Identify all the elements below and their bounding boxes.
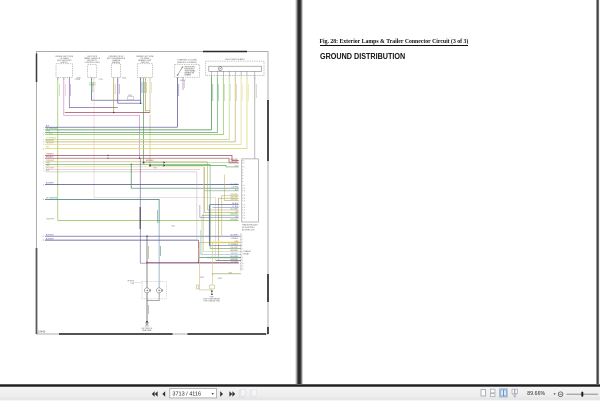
wire TAN/WHT to lower connector pin 7: [201, 254, 241, 256]
steering column multifunction switch box: [175, 65, 200, 78]
svg-text:LT GRN/BLK: LT GRN/BLK: [228, 244, 239, 246]
svg-text:BRN/BLK: BRN/BLK: [46, 156, 54, 158]
lamp bulb 2: [157, 288, 162, 293]
lower stub labels: [228, 235, 239, 264]
wire BLK from ignition switch to bus: [176, 77, 178, 127]
svg-text:ENTRY): ENTRY): [60, 62, 68, 64]
svg-text:3: 3: [242, 242, 243, 244]
svg-text:RELAY: RELAY: [243, 252, 250, 255]
svg-text:8: 8: [43, 168, 44, 170]
wire GRN/WHT to lower connector pin 9: [216, 259, 241, 261]
light switch inner block: [209, 66, 262, 71]
svg-text:LT GRN: LT GRN: [46, 133, 53, 135]
toolbar body: [0, 387, 600, 401]
connector box C249 under left side of dash: [56, 64, 73, 78]
connector ref labels: [75, 77, 186, 87]
green vertical to module pin5: [131, 164, 239, 188]
pin ticks inside left edge: [242, 161, 244, 218]
svg-text:19: 19: [244, 210, 246, 212]
steering column label: [177, 60, 197, 64]
wire VIO to module pin 22: [200, 205, 239, 218]
right page heading: Fig. 28 title: [320, 39, 590, 45]
verticals feeding rows: [208, 205, 210, 246]
svg-text:BRN/WHT: BRN/WHT: [230, 250, 238, 252]
wire BLK/WHT bus lower second: [45, 239, 198, 241]
svg-text:6: 6: [43, 163, 44, 165]
svg-text:VIO/WHT: VIO/WHT: [231, 262, 238, 264]
wire RED/WHT from C585 to lower connector: [94, 78, 216, 261]
lamp bulb 1: [144, 288, 149, 293]
svg-text:5: 5: [43, 161, 44, 163]
tan wires: [200, 242, 212, 290]
zoom percent: [527, 391, 545, 397]
B3 label: [107, 56, 126, 64]
svg-text:BLK/WHT: BLK/WHT: [231, 184, 239, 186]
svg-text:10: 10: [242, 263, 244, 265]
right page edge: [596, 0, 598, 384]
svg-text:C115: C115: [128, 95, 132, 97]
svg-text:2: 2: [242, 239, 243, 241]
wire BLK/WHT bus to trailer module pin 9: [45, 184, 239, 186]
wire GRN light switch pin 2 to left bus: [45, 76, 217, 132]
wire VIO ignition switch stub: [182, 77, 184, 90]
svg-text:255A: 255A: [122, 77, 127, 80]
svg-text:W/ TRLR: W/ TRLR: [127, 281, 134, 283]
wire BLK bus to ignition switch: [45, 126, 177, 128]
junction dots mid: [113, 102, 142, 113]
wire ORN/BLK vertical to splice: [197, 240, 199, 262]
svg-text:IGNITION SW: IGNITION SW: [185, 67, 196, 69]
ground symbol: [146, 321, 148, 323]
svg-text:ORN/WHT: ORN/WHT: [230, 247, 238, 249]
wire BLK/WHT from C585 to junction: [91, 78, 93, 92]
svg-text:8: 8: [242, 257, 243, 259]
wire ORN/WHT bus to bundle: [45, 161, 207, 163]
svg-text:8: 8: [43, 144, 44, 146]
svg-text:3713 / 4116: 3713 / 4116: [172, 392, 201, 398]
svg-text:7: 7: [43, 166, 44, 168]
svg-text:C417: C417: [200, 277, 204, 279]
svg-text:9: 9: [242, 260, 243, 262]
faded clipboard icons: [238, 389, 260, 400]
diagram frame border: [37, 52, 269, 335]
green feed from connector column: [211, 274, 213, 275]
wire BRN/WHT light switch pin 6 to left bus: [45, 76, 235, 141]
pin boxes: [197, 285, 199, 289]
svg-text:BLK/WHT: BLK/WHT: [46, 238, 55, 240]
wire ORN/WHT to module pin 13: [222, 196, 239, 237]
svg-text:TAN/WHT: TAN/WHT: [231, 252, 239, 255]
ground wire: [146, 293, 148, 322]
svg-text:MULTIFUNCT: MULTIFUNCT: [185, 69, 195, 71]
toolbar nav controls: [146, 388, 246, 400]
wire BLK/WHT to module pin 19: [207, 162, 238, 210]
svg-text:16: 16: [43, 184, 45, 186]
wire VIO from C249 to 255A: [69, 78, 118, 108]
svg-text:10: 10: [43, 148, 45, 150]
wire PNK from C249 to splice vertical: [64, 78, 140, 159]
svg-text:LIGHT SWITCH ASSY: LIGHT SWITCH ASSY: [225, 58, 246, 61]
svg-text:BLK/WHT: BLK/WHT: [46, 234, 55, 236]
svg-text:1: 1: [242, 236, 243, 238]
svg-text:C434: C434: [171, 226, 175, 228]
left page: [0, 0, 296, 384]
wire BRN/BLK splice run: [65, 112, 150, 114]
connector pin rows (tiny): [57, 78, 256, 81]
svg-text:4: 4: [43, 134, 44, 136]
svg-text:255A: 255A: [76, 77, 81, 80]
inline connector box on navy run: [128, 97, 134, 100]
wire BLK light switch pin 10 to trailer module: [254, 76, 256, 158]
B1 label: [55, 56, 73, 64]
gray link to module pin6: [204, 190, 239, 192]
svg-text:ORN/WHT: ORN/WHT: [230, 161, 238, 163]
wire DK GRN/WHT light switch pin 1 to left bus: [45, 76, 211, 129]
svg-text:BLU/WHT: BLU/WHT: [231, 256, 239, 258]
svg-text:2: 2: [43, 130, 44, 132]
B2 label: [84, 56, 101, 64]
pin numbers: [244, 160, 246, 219]
svg-text:YEL: YEL: [46, 147, 49, 149]
wire ORN from 255A to splice S1: [113, 78, 115, 113]
wire BLK/WHT bus to lower connector pin 1: [45, 235, 241, 237]
svg-text:GRN/WHT: GRN/WHT: [230, 259, 238, 261]
svg-text:15: 15: [244, 200, 246, 202]
svg-text:ORN/BLK: ORN/BLK: [231, 238, 239, 240]
svg-text:4: 4: [242, 245, 243, 247]
connector box C585 security control unit: [88, 65, 97, 78]
svg-text:14: 14: [244, 198, 246, 200]
svg-text:BLK/WHT: BLK/WHT: [46, 183, 55, 185]
svg-text:TAN/WHT: TAN/WHT: [46, 142, 55, 145]
svg-text:11: 11: [242, 266, 244, 268]
module stub wires group: [197, 162, 241, 261]
module stub labels (colored): [230, 159, 239, 221]
svg-text:GRN/WHT: GRN/WHT: [230, 219, 238, 221]
wire DK BLU bundle vertical: [209, 205, 211, 246]
wire LT GRN light switch pin 3 to left bus: [45, 76, 223, 134]
wire ORN/WHT to lower connector pin 5: [210, 248, 241, 250]
bus left labels: [46, 125, 58, 240]
wire BRN/WHT to lower connector pin 6: [204, 167, 242, 252]
wire GRN brake switch to inline connector: [143, 78, 145, 163]
svg-text:BRN/WHT: BRN/WHT: [146, 160, 154, 162]
splice mark on maroon pair: [107, 155, 140, 159]
lower connector stub wires group: [199, 164, 241, 273]
light switch pin label bars: [213, 84, 256, 101]
module label below: [242, 224, 259, 232]
right page: [303, 0, 597, 384]
wire RED/WHT bus to bundle: [45, 168, 200, 170]
wire BLK bus to bundle: [45, 171, 197, 173]
wire TAN/WHT light switch pin 7 to left bus: [45, 76, 241, 144]
bus left pin numbers: [43, 127, 45, 242]
svg-text:16465: 16465: [38, 330, 46, 334]
svg-text:P186: P186: [210, 296, 214, 298]
toolbar dark top band: [0, 384, 600, 387]
wire TAN/WHT bundle vertical: [224, 175, 226, 201]
svg-text:DK GRN/WHT: DK GRN/WHT: [46, 198, 58, 200]
wire TAN/WHT to module pin 15: [225, 200, 239, 202]
svg-text:SWITCH: SWITCH: [141, 62, 149, 64]
wire BLK/WHT brake switch drop: [140, 78, 142, 104]
svg-text:F: F: [219, 68, 222, 71]
svg-text:13: 13: [244, 195, 246, 197]
label bars on lamp wires: [147, 246, 149, 259]
svg-text:22: 22: [43, 236, 45, 238]
svg-text:G401: G401: [145, 326, 149, 328]
wire BRN/WHT to module pin 14: [219, 198, 239, 260]
wire TAN bus to bundle: [45, 166, 204, 168]
svg-text:(SHROUD LOCATED): (SHROUD LOCATED): [177, 61, 197, 64]
wire TAN to module pin 20: [205, 167, 239, 213]
page separator: [295, 0, 303, 384]
light switch assembly box: [206, 61, 264, 76]
wire BRN/BLK bus to trailer module pin 2: [45, 158, 239, 163]
arrow to splice: [211, 291, 213, 294]
svg-text:22: 22: [244, 218, 246, 220]
dashed lamp box: [142, 281, 166, 299]
svg-text:11: 11: [244, 191, 246, 193]
wire BLK bundle vertical: [196, 172, 198, 239]
wire ORN brake switch to splice run: [145, 78, 150, 113]
GROUND DISTRIBUTION heading: [320, 52, 405, 61]
zoom controls: [550, 388, 600, 400]
svg-text:5: 5: [242, 248, 243, 250]
purple vertical from pink corner down to lower row: [140, 158, 239, 263]
svg-text:TOW CONN (W/ TOW): TOW CONN (W/ TOW): [203, 301, 220, 303]
wire LT GRN/BLK light switch pin 5 to left bus: [45, 76, 229, 139]
svg-text:12: 12: [242, 268, 244, 270]
svg-text:GRN/WHT: GRN/WHT: [46, 219, 55, 221]
svg-text:TUBING: TUBING: [89, 85, 96, 87]
svg-text:DIMMER: DIMMER: [185, 75, 192, 77]
svg-text:23: 23: [43, 240, 45, 242]
connector box under dash brake switch: [137, 64, 153, 78]
wire GRN long bundle vertical: [209, 164, 211, 248]
svg-text:18: 18: [244, 207, 246, 209]
wire RED to lower connector pin 3: [200, 241, 242, 243]
svg-text:AT RIGHT QTR: AT RIGHT QTR: [242, 228, 255, 231]
wire TAN brake switch to inline connector: [149, 78, 151, 111]
box labels: [55, 56, 245, 64]
view mode icons: [479, 388, 521, 399]
lamp wire 1 (tan/blk): [146, 236, 148, 288]
svg-text:CONTROL UNIT): CONTROL UNIT): [84, 62, 100, 64]
connector box 255A center of dash: [112, 64, 121, 78]
wire GRN bundle vertical: [201, 215, 203, 254]
svg-text:6: 6: [43, 139, 44, 141]
B4 label: [136, 56, 154, 64]
svg-text:17: 17: [244, 204, 246, 206]
wire YEL light switch pin 8 to left bus: [45, 76, 247, 148]
svg-text:10: 10: [244, 188, 246, 190]
vertical wire name bars (label smudges): [59, 80, 184, 96]
highlight bands: [211, 241, 240, 243]
lamp2 to ground join: [147, 293, 159, 301]
wire GRN/WHT from C249 to trailer module pin 22: [58, 78, 239, 221]
svg-text:18: 18: [43, 199, 45, 201]
svg-text:LEFT SIDE OF: LEFT SIDE OF: [142, 328, 153, 330]
svg-text:20: 20: [244, 212, 246, 214]
wire GRN/WHT to module pin 21: [202, 214, 239, 216]
wire GRN to lower connector pin 12: [212, 273, 241, 275]
svg-text:9: 9: [43, 170, 44, 172]
svg-text:1: 1: [43, 127, 44, 129]
wire LT BLU to module pin 18: [212, 206, 238, 208]
wire DK GRN/WHT bus to rear lamp 2: [45, 199, 159, 223]
dark label segment on purple vertical: [139, 207, 141, 229]
svg-text:2: 2: [43, 155, 44, 157]
wire DK BLU to module pin 17: [210, 204, 239, 206]
svg-text:21: 21: [244, 215, 246, 217]
svg-text:C416: C416: [218, 278, 222, 280]
wire BLU/WHT to lower connector pin 8: [199, 257, 241, 259]
svg-text:3: 3: [43, 132, 44, 134]
svg-text:7: 7: [43, 142, 44, 144]
wire GRN bus to bundle: [45, 163, 210, 165]
lower connector label: [243, 250, 251, 255]
svg-text:ORN/BLK: ORN/BLK: [46, 154, 55, 156]
svg-text:BLK/WHT: BLK/WHT: [231, 235, 239, 237]
steering column switch symbol: [177, 67, 183, 76]
svg-text:C585: C585: [99, 79, 103, 81]
svg-text:3: 3: [43, 158, 44, 160]
svg-text:TOW: TOW: [130, 283, 134, 285]
wire ORN/BLK bus to trailer module pin 1: [45, 156, 239, 161]
wire LT GRN/BLK to lower connector pin 4: [209, 245, 241, 247]
ground ref dashes left: [135, 281, 143, 283]
wire VIO from 255A to junction: [118, 78, 141, 104]
svg-text:WIRING): WIRING): [112, 62, 120, 64]
